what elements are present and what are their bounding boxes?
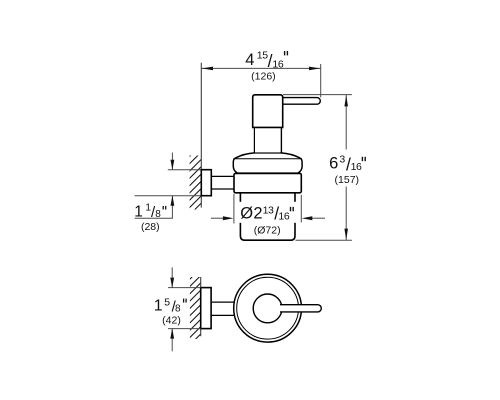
holder ring band (side view): [234, 173, 301, 192]
28 text shelf line: [135, 217, 173, 219]
mounting arm (side view): [211, 175, 235, 177]
svg-text:3: 3: [339, 153, 345, 165]
svg-text:1: 1: [134, 203, 143, 220]
svg-text:16: 16: [272, 59, 283, 71]
holder ring inner circle: [237, 277, 299, 339]
42 bottom extension line: [168, 328, 201, 330]
svg-text:8: 8: [155, 209, 161, 220]
svg-text:6: 6: [329, 154, 338, 172]
svg-text:(28): (28): [141, 221, 160, 233]
white halo breaking glass lines behind diameter text: [238, 202, 300, 223]
text 4 15/16": [245, 50, 287, 71]
spout bar (bottom view): [280, 305, 321, 312]
157 dimension line (broken for text): [345, 95, 347, 150]
126 dim right extension line (to spout tip): [320, 64, 322, 97]
svg-text:(Ø72): (Ø72): [254, 225, 281, 237]
svg-text:16: 16: [278, 211, 289, 223]
42 top arrow (points down): [171, 267, 173, 287]
wall hatching (bottom view): [186, 263, 206, 349]
svg-text:5: 5: [164, 296, 170, 308]
svg-text:15: 15: [257, 50, 268, 62]
wall line (side view), doubles as left extension line of 126 dim: [200, 63, 202, 208]
Ø72 left arrow (points right): [211, 217, 224, 219]
svg-text:(126): (126): [251, 71, 276, 83]
wall line (bottom view): [200, 277, 202, 336]
svg-text:13: 13: [263, 204, 274, 216]
157 bottom extension line (from glass bottom): [296, 239, 352, 241]
dimension 1 5/8" (42): top extension line: [168, 287, 201, 289]
126 dim left arrowhead: [202, 67, 213, 71]
28 bottom extension line: [135, 195, 202, 197]
svg-text:(42): (42): [162, 314, 181, 326]
28 bottom arrow (points up) + leader down to shelf: [171, 196, 173, 218]
svg-text:8: 8: [175, 303, 181, 314]
text 6 3/16": [329, 153, 365, 174]
42 bottom arrow (points up): [171, 329, 173, 352]
side view: dispenser bun lid: [233, 153, 302, 173]
pump head: [253, 95, 283, 128]
28 top arrow (points down): [171, 153, 173, 170]
text 1 1/8": [134, 202, 165, 221]
glass container: [240, 193, 295, 240]
pump neck: [255, 127, 282, 152]
text 1 5/8": [154, 296, 186, 315]
dimension Ø72: left extension line: [233, 194, 235, 224]
bun rim line: [233, 158, 302, 160]
svg-text:16: 16: [351, 161, 362, 173]
Ø72 right arrow (points left): [312, 217, 325, 219]
svg-text:2: 2: [253, 204, 262, 222]
dimension 6 3/16" (157): top extension line (from head top): [283, 94, 352, 96]
svg-text:4: 4: [245, 51, 254, 69]
157 bottom arrowhead: [344, 229, 348, 240]
wall flange / rosette (side view): [201, 170, 211, 196]
157 top arrowhead: [344, 95, 348, 106]
pump circle (bottom view): [253, 294, 282, 323]
dimension 1 1/8" (28): top extension line: [168, 169, 202, 171]
svg-text:(157): (157): [335, 174, 360, 186]
dimension 4 15/16" (126): dimension line: [201, 67, 320, 69]
svg-text:Ø: Ø: [240, 204, 253, 222]
svg-text:1: 1: [154, 298, 163, 315]
spout (side view): [281, 98, 320, 105]
wall hatching (side view): [186, 140, 206, 218]
text Ø2 13/16": [240, 203, 293, 223]
mounting arm (bottom view): [211, 301, 236, 303]
holder ring outer circle (bottom view): [234, 274, 302, 342]
126 dim right arrowhead: [309, 67, 320, 71]
Ø72 right extension line: [300, 195, 302, 223]
wall flange (bottom view): [201, 288, 211, 329]
